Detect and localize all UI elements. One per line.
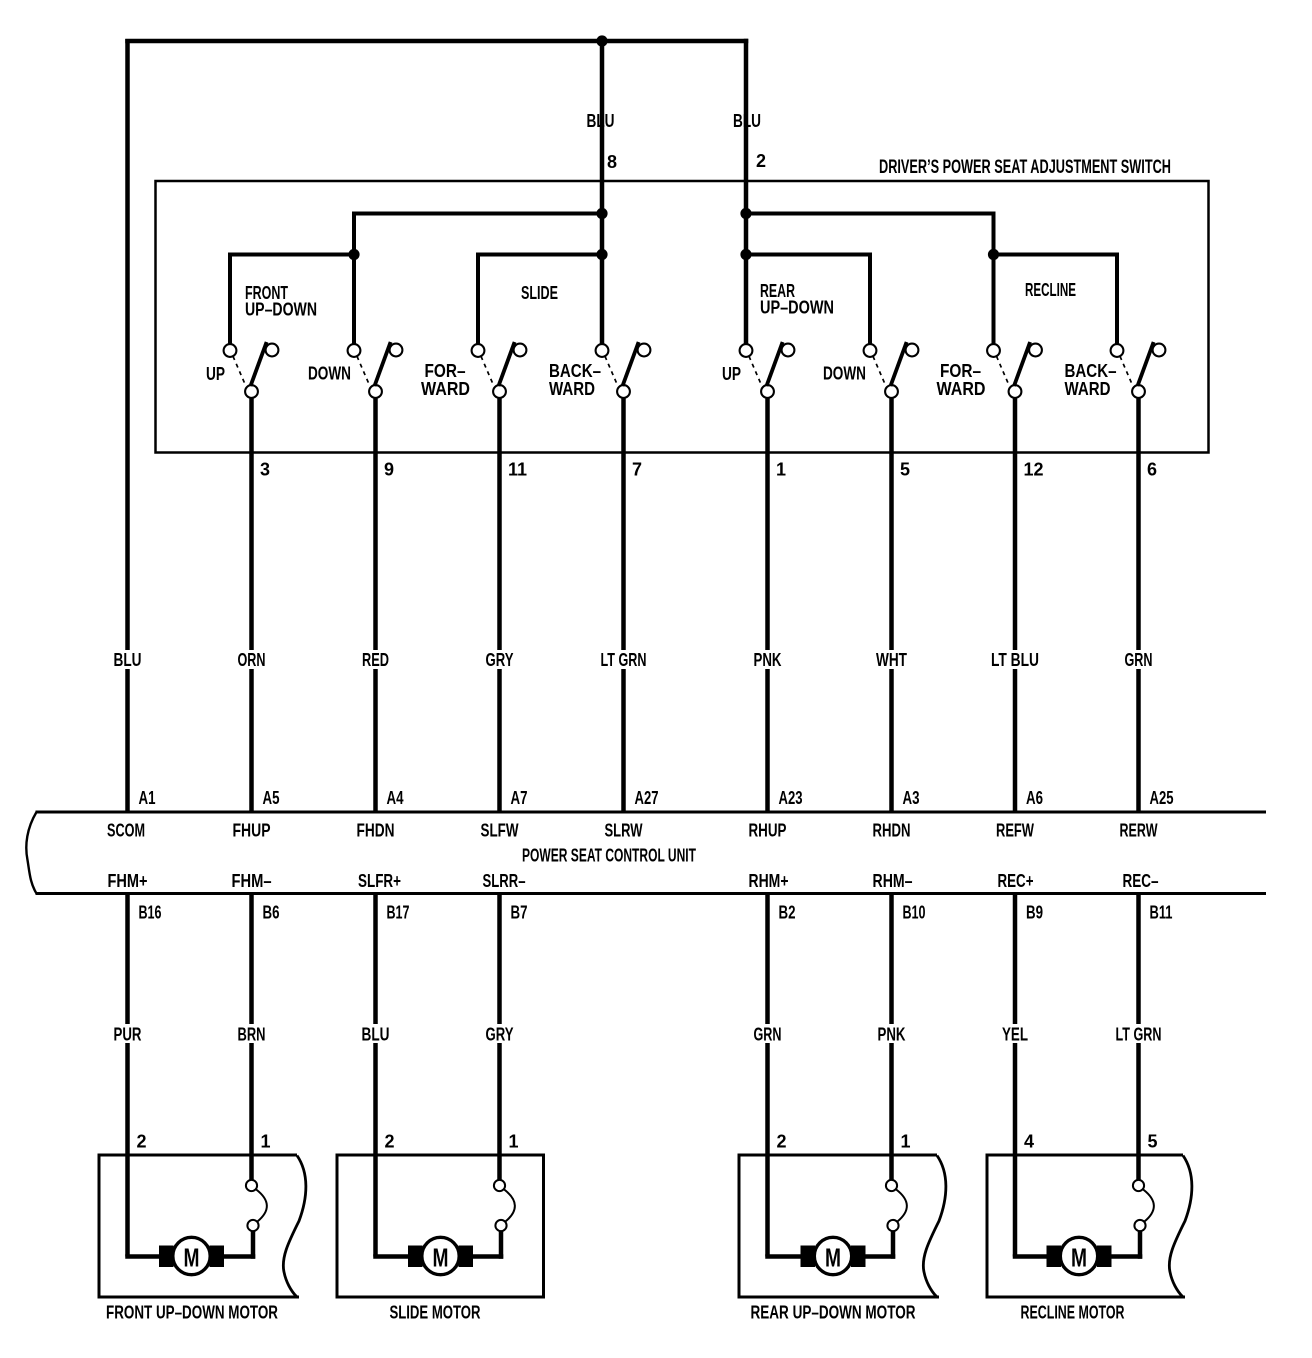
- wire: unit output B-row column 3 down to motor: [373, 893, 378, 1257]
- svg-text:WHT: WHT: [876, 650, 907, 670]
- front up-down motor: wire from breaker to motor brush: [222, 1254, 256, 1259]
- svg-text:GRN: GRN: [754, 1025, 782, 1045]
- svg-text:RED: RED: [362, 650, 389, 670]
- front up-down motor: enclosure box: [99, 1155, 306, 1297]
- junction on pin2 riser at upper bus: [740, 208, 751, 219]
- svg-text:SLRW: SLRW: [605, 821, 643, 841]
- wire: bus from pin8 riser to front down switch: [352, 212, 602, 216]
- connector pin A6 label: [1026, 788, 1043, 808]
- svg-text:1: 1: [261, 1132, 271, 1152]
- wire: unit output B-row column 5 down to motor: [765, 893, 770, 1257]
- slide motor: enclosure box: [337, 1155, 544, 1297]
- unit output label REC+: [998, 871, 1034, 891]
- wire color label GRY (unit-to-motor): [484, 1024, 516, 1045]
- svg-text:B10: B10: [903, 903, 926, 923]
- svg-text:REC–: REC–: [1123, 871, 1159, 891]
- unit output label FHM+: [108, 871, 148, 891]
- power seat control unit: top edge: [36, 811, 1267, 814]
- slide motor: wire from pin 2 to motor brush: [373, 1254, 410, 1259]
- unit output label FHM-: [232, 871, 272, 891]
- slide motor: motor symbol M: [408, 1237, 473, 1274]
- svg-text:BLU: BLU: [114, 650, 142, 670]
- svg-text:LT GRN: LT GRN: [1116, 1025, 1162, 1045]
- rear up-down motor: enclosure box: [739, 1155, 946, 1297]
- svg-text:SLFR+: SLFR+: [358, 871, 401, 891]
- svg-text:2: 2: [137, 1132, 147, 1152]
- switch pin 7 label: [632, 460, 642, 480]
- svg-text:5: 5: [900, 460, 910, 480]
- unit input label FHUP: [233, 821, 271, 841]
- svg-text:FHM+: FHM+: [108, 871, 148, 891]
- wire: BLU riser pin 8: [600, 41, 605, 344]
- wire color label PUR (unit-to-motor): [112, 1024, 144, 1045]
- unit input label RERW: [1120, 821, 1158, 841]
- svg-text:FHM–: FHM–: [232, 871, 272, 891]
- recline motor: wire from breaker to motor brush: [1109, 1254, 1142, 1259]
- wire: drop to front up feed: [228, 253, 232, 345]
- svg-text:BLU: BLU: [362, 1025, 390, 1045]
- svg-text:B2: B2: [779, 903, 796, 923]
- connector pin A23 label: [779, 788, 803, 808]
- switch: rear down: [864, 342, 919, 813]
- svg-text:RECLINE: RECLINE: [1025, 280, 1076, 300]
- wire color label BRN (unit-to-motor): [236, 1024, 268, 1045]
- switch pin 11 label: [508, 460, 527, 480]
- switch: front down: [348, 342, 403, 813]
- svg-text:UP–DOWN: UP–DOWN: [245, 300, 317, 320]
- wire color label GRY (switch-to-unit): [484, 650, 516, 670]
- wire: branch to rear down switch: [746, 253, 872, 257]
- switch pin 12 label: [1024, 460, 1044, 480]
- wire: branch to front up switch: [228, 253, 354, 257]
- wire: top feed horizontal from A1 riser to pin 2 riser: [125, 39, 748, 44]
- connector pin B6 label: [263, 903, 280, 923]
- svg-text:POWER SEAT CONTROL UNIT: POWER SEAT CONTROL UNIT: [522, 846, 696, 866]
- wire color label PNK (unit-to-motor): [876, 1024, 908, 1045]
- svg-text:PNK: PNK: [878, 1025, 906, 1045]
- svg-text:3: 3: [260, 460, 270, 480]
- svg-text:BRN: BRN: [238, 1025, 266, 1045]
- switch: slide backward: [596, 342, 651, 813]
- power seat control unit: torn left edge: [26, 812, 36, 894]
- label RECLINE: [1025, 280, 1076, 300]
- svg-text:BLU: BLU: [733, 111, 761, 131]
- svg-text:GRY: GRY: [486, 1025, 514, 1045]
- svg-text:FHDN: FHDN: [357, 821, 395, 841]
- label POWER SEAT CONTROL UNIT: [522, 846, 696, 866]
- connector pin B16 label: [139, 903, 162, 923]
- wire color label BLU (switch-to-unit): [112, 650, 144, 670]
- svg-text:2: 2: [777, 1132, 787, 1152]
- motor pin 5 label: [1148, 1132, 1158, 1152]
- unit input label FHDN: [357, 821, 395, 841]
- label DOWN (front): [308, 364, 351, 384]
- motor pin 1 label: [901, 1132, 911, 1152]
- svg-text:YEL: YEL: [1002, 1025, 1028, 1045]
- label FORWARD (slide): [421, 361, 470, 399]
- connector pin A5 label: [263, 788, 280, 808]
- label DOWN (rear): [823, 364, 866, 384]
- wire: bus from pin2 riser to recline forward: [746, 212, 996, 216]
- svg-text:SLRR–: SLRR–: [483, 871, 526, 891]
- label BLU (pin 8 wire): [587, 111, 615, 131]
- wire: branch slide forward to pin8 riser: [478, 253, 602, 257]
- motor pin 4 label: [1024, 1132, 1034, 1152]
- svg-text:LT BLU: LT BLU: [991, 650, 1039, 670]
- svg-text:UP: UP: [722, 364, 741, 384]
- label REAR UP-DOWN: [760, 281, 834, 318]
- svg-text:A27: A27: [635, 788, 659, 808]
- svg-text:2: 2: [756, 151, 766, 171]
- unit output label REC-: [1123, 871, 1159, 891]
- svg-text:FHUP: FHUP: [233, 821, 271, 841]
- front up-down motor: wire from pin 2 to motor brush: [125, 1254, 161, 1259]
- wire: unit output B-row column 2 down to motor: [249, 893, 254, 1181]
- svg-text:PUR: PUR: [114, 1025, 142, 1045]
- wire color label LT GRN (switch-to-unit): [599, 650, 649, 670]
- wire: drop to rear down feed: [868, 253, 872, 345]
- switch: slide forward: [472, 342, 527, 813]
- svg-text:A23: A23: [779, 788, 803, 808]
- connector pin B10 label: [903, 903, 926, 923]
- pin 2 label: [756, 151, 766, 171]
- unit input label RHDN: [873, 821, 911, 841]
- svg-text:BLU: BLU: [587, 111, 615, 131]
- svg-text:RHM+: RHM+: [749, 871, 789, 891]
- svg-text:B7: B7: [511, 903, 528, 923]
- svg-text:M: M: [433, 1243, 449, 1273]
- svg-text:5: 5: [1148, 1132, 1158, 1152]
- wire: unit output B-row column 7 down to motor: [1013, 893, 1018, 1257]
- front up-down motor: caption: [106, 1303, 278, 1323]
- switch pin 3 label: [260, 460, 270, 480]
- svg-text:WARD: WARD: [549, 379, 595, 399]
- svg-text:A6: A6: [1026, 788, 1043, 808]
- svg-text:FOR–: FOR–: [425, 361, 466, 381]
- junction at recline branch: [988, 249, 999, 260]
- label UP (front): [206, 364, 225, 384]
- recline motor: enclosure box: [987, 1155, 1192, 1297]
- connector pin A25 label: [1150, 788, 1174, 808]
- wire color label LT GRN (unit-to-motor): [1114, 1024, 1164, 1045]
- svg-text:PNK: PNK: [754, 650, 782, 670]
- svg-text:M: M: [825, 1243, 841, 1273]
- svg-text:2: 2: [385, 1132, 395, 1152]
- svg-text:REFW: REFW: [996, 821, 1034, 841]
- wire: branch to recline backward switch: [994, 253, 1120, 257]
- svg-text:BACK–: BACK–: [549, 361, 601, 381]
- svg-text:ORN: ORN: [238, 650, 266, 670]
- driver's power seat adjustment switch enclosure box: [156, 181, 1209, 453]
- svg-text:DOWN: DOWN: [823, 364, 866, 384]
- svg-text:A1: A1: [139, 788, 156, 808]
- wire: drop to recline backward feed: [1115, 253, 1119, 345]
- junction on pin8 riser at upper bus: [596, 208, 607, 219]
- svg-text:GRY: GRY: [486, 650, 514, 670]
- wire: unit output B-row column 6 down to motor: [889, 893, 894, 1181]
- svg-text:GRN: GRN: [1125, 650, 1153, 670]
- wire: BLU riser pin 2: [744, 39, 749, 344]
- connector pin A1 label: [139, 788, 156, 808]
- svg-text:FRONT UP–DOWN MOTOR: FRONT UP–DOWN MOTOR: [106, 1303, 278, 1323]
- junction on pin2 riser at lower bus: [740, 249, 751, 260]
- svg-text:REAR UP–DOWN MOTOR: REAR UP–DOWN MOTOR: [751, 1303, 916, 1323]
- svg-text:REC+: REC+: [998, 871, 1034, 891]
- svg-text:6: 6: [1147, 460, 1157, 480]
- svg-text:A3: A3: [903, 788, 920, 808]
- recline motor: caption: [1021, 1303, 1125, 1323]
- pin 8 label: [607, 152, 617, 172]
- wire color label YEL (unit-to-motor): [1000, 1024, 1030, 1045]
- unit input label SLFW: [481, 821, 519, 841]
- svg-text:RECLINE MOTOR: RECLINE MOTOR: [1021, 1303, 1125, 1323]
- label BACKWARD (recline): [1065, 361, 1117, 399]
- slide motor: caption: [390, 1303, 481, 1323]
- svg-text:RERW: RERW: [1120, 821, 1158, 841]
- svg-text:DRIVER’S POWER SEAT ADJUSTMENT: DRIVER’S POWER SEAT ADJUSTMENT SWITCH: [879, 157, 1171, 178]
- svg-text:A25: A25: [1150, 788, 1174, 808]
- svg-text:SLIDE MOTOR: SLIDE MOTOR: [390, 1303, 481, 1323]
- unit output label SLRR-: [483, 871, 526, 891]
- motor pin 1 label: [261, 1132, 271, 1152]
- switch pin 9 label: [384, 460, 394, 480]
- wire color label PNK (switch-to-unit): [752, 650, 784, 670]
- recline motor: circuit breaker: [1133, 1180, 1154, 1259]
- front up-down motor: motor symbol M: [159, 1237, 224, 1274]
- wire color label BLU (unit-to-motor): [360, 1024, 392, 1045]
- motor pin 2 label: [385, 1132, 395, 1152]
- connector pin B11 label: [1150, 903, 1173, 923]
- switch pin 6 label: [1147, 460, 1157, 480]
- svg-text:12: 12: [1024, 460, 1044, 480]
- svg-text:RHM–: RHM–: [873, 871, 913, 891]
- wire: drop to slide forward feed: [476, 253, 480, 345]
- svg-text:WARD: WARD: [1065, 379, 1111, 399]
- switch pin 1 label: [776, 460, 786, 480]
- connector pin B7 label: [511, 903, 528, 923]
- connector pin B2 label: [779, 903, 796, 923]
- svg-text:1: 1: [509, 1132, 519, 1152]
- junction at front up-down branch: [348, 249, 359, 260]
- connector pin A27 label: [635, 788, 659, 808]
- switch: recline forward: [987, 342, 1042, 813]
- svg-text:11: 11: [508, 460, 527, 480]
- svg-text:8: 8: [607, 152, 617, 172]
- svg-text:LT GRN: LT GRN: [601, 650, 647, 670]
- slide motor: circuit breaker: [494, 1180, 515, 1259]
- svg-text:M: M: [184, 1243, 200, 1273]
- wire color label LT BLU (switch-to-unit): [989, 650, 1041, 670]
- rear up-down motor: wire from breaker to motor brush: [863, 1254, 895, 1259]
- svg-text:RHUP: RHUP: [749, 821, 787, 841]
- connector pin A4 label: [387, 788, 404, 808]
- svg-text:SCOM: SCOM: [107, 821, 145, 841]
- motor pin 2 label: [777, 1132, 787, 1152]
- unit input label RHUP: [749, 821, 787, 841]
- svg-text:B9: B9: [1026, 903, 1043, 923]
- svg-text:SLIDE: SLIDE: [521, 283, 558, 303]
- switch: recline backward: [1111, 342, 1166, 813]
- unit input label SCOM: [107, 821, 145, 841]
- svg-text:A4: A4: [387, 788, 404, 808]
- unit output label RHM-: [873, 871, 913, 891]
- svg-text:B11: B11: [1150, 903, 1173, 923]
- svg-text:BACK–: BACK–: [1065, 361, 1117, 381]
- connector pin A7 label: [511, 788, 528, 808]
- rear up-down motor: caption: [751, 1303, 916, 1323]
- svg-text:WARD: WARD: [421, 379, 470, 399]
- wire color label WHT (switch-to-unit): [874, 650, 909, 670]
- svg-text:4: 4: [1024, 1132, 1034, 1152]
- recline motor: wire from pin 2 to motor brush: [1013, 1254, 1049, 1259]
- wire: drop to front down feed: [352, 212, 356, 345]
- svg-text:1: 1: [901, 1132, 911, 1152]
- label FRONT UP-DOWN: [245, 283, 317, 320]
- junction on pin8 riser at lower bus: [596, 249, 607, 260]
- svg-text:B16: B16: [139, 903, 162, 923]
- svg-text:UP: UP: [206, 364, 225, 384]
- svg-text:A5: A5: [263, 788, 280, 808]
- label BACKWARD (slide): [549, 361, 601, 399]
- switch pin 5 label: [900, 460, 910, 480]
- title DRIVER'S POWER SEAT ADJUSTMENT SWITCH: [879, 157, 1171, 178]
- svg-text:WARD: WARD: [937, 379, 986, 399]
- unit input label REFW: [996, 821, 1034, 841]
- power seat control unit: bottom edge: [36, 892, 1267, 895]
- rear up-down motor: circuit breaker: [886, 1180, 907, 1259]
- svg-text:M: M: [1071, 1243, 1087, 1273]
- wire color label RED (switch-to-unit): [360, 650, 391, 670]
- motor pin 1 label: [509, 1132, 519, 1152]
- junction on top feed at pin 8 riser: [596, 35, 607, 46]
- label BLU (pin 2 wire): [733, 111, 761, 131]
- motor pin 2 label: [137, 1132, 147, 1152]
- wire: unit output B-row column 4 down to motor: [497, 893, 502, 1181]
- connector pin A3 label: [903, 788, 920, 808]
- svg-text:B17: B17: [387, 903, 410, 923]
- label UP (rear): [722, 364, 741, 384]
- switch: front up (SPST lever): [224, 342, 279, 813]
- rear up-down motor: motor symbol M: [801, 1237, 866, 1274]
- wire color label GRN (unit-to-motor): [752, 1024, 784, 1045]
- wire color label GRN (switch-to-unit): [1123, 650, 1155, 670]
- svg-text:7: 7: [632, 460, 642, 480]
- svg-text:UP–DOWN: UP–DOWN: [760, 298, 834, 318]
- label FORWARD (recline): [937, 361, 986, 399]
- svg-text:DOWN: DOWN: [308, 364, 351, 384]
- rear up-down motor: wire from pin 2 to motor brush: [765, 1254, 803, 1259]
- connector pin B17 label: [387, 903, 410, 923]
- unit output label RHM+: [749, 871, 789, 891]
- svg-text:1: 1: [776, 460, 786, 480]
- wire: unit output B-row column 1 down to motor: [125, 893, 130, 1257]
- svg-text:RHDN: RHDN: [873, 821, 911, 841]
- svg-text:A7: A7: [511, 788, 528, 808]
- unit output label SLFR+: [358, 871, 401, 891]
- wire: drop to recline forward feed: [992, 212, 996, 345]
- wire color label ORN (switch-to-unit): [236, 650, 268, 670]
- svg-text:FOR–: FOR–: [940, 361, 981, 381]
- svg-text:9: 9: [384, 460, 394, 480]
- svg-text:B6: B6: [263, 903, 280, 923]
- svg-text:SLFW: SLFW: [481, 821, 519, 841]
- label SLIDE: [521, 283, 558, 303]
- connector pin B9 label: [1026, 903, 1043, 923]
- unit input label SLRW: [605, 821, 643, 841]
- switch: rear up: [740, 342, 795, 813]
- wire: unit output B-row column 8 down to motor: [1136, 893, 1141, 1181]
- recline motor: motor symbol M: [1047, 1237, 1112, 1274]
- front up-down motor: circuit breaker: [246, 1180, 267, 1259]
- slide motor: wire from breaker to motor brush: [471, 1254, 504, 1259]
- wire: left vertical riser BLU to SCOM A1: [125, 39, 130, 813]
